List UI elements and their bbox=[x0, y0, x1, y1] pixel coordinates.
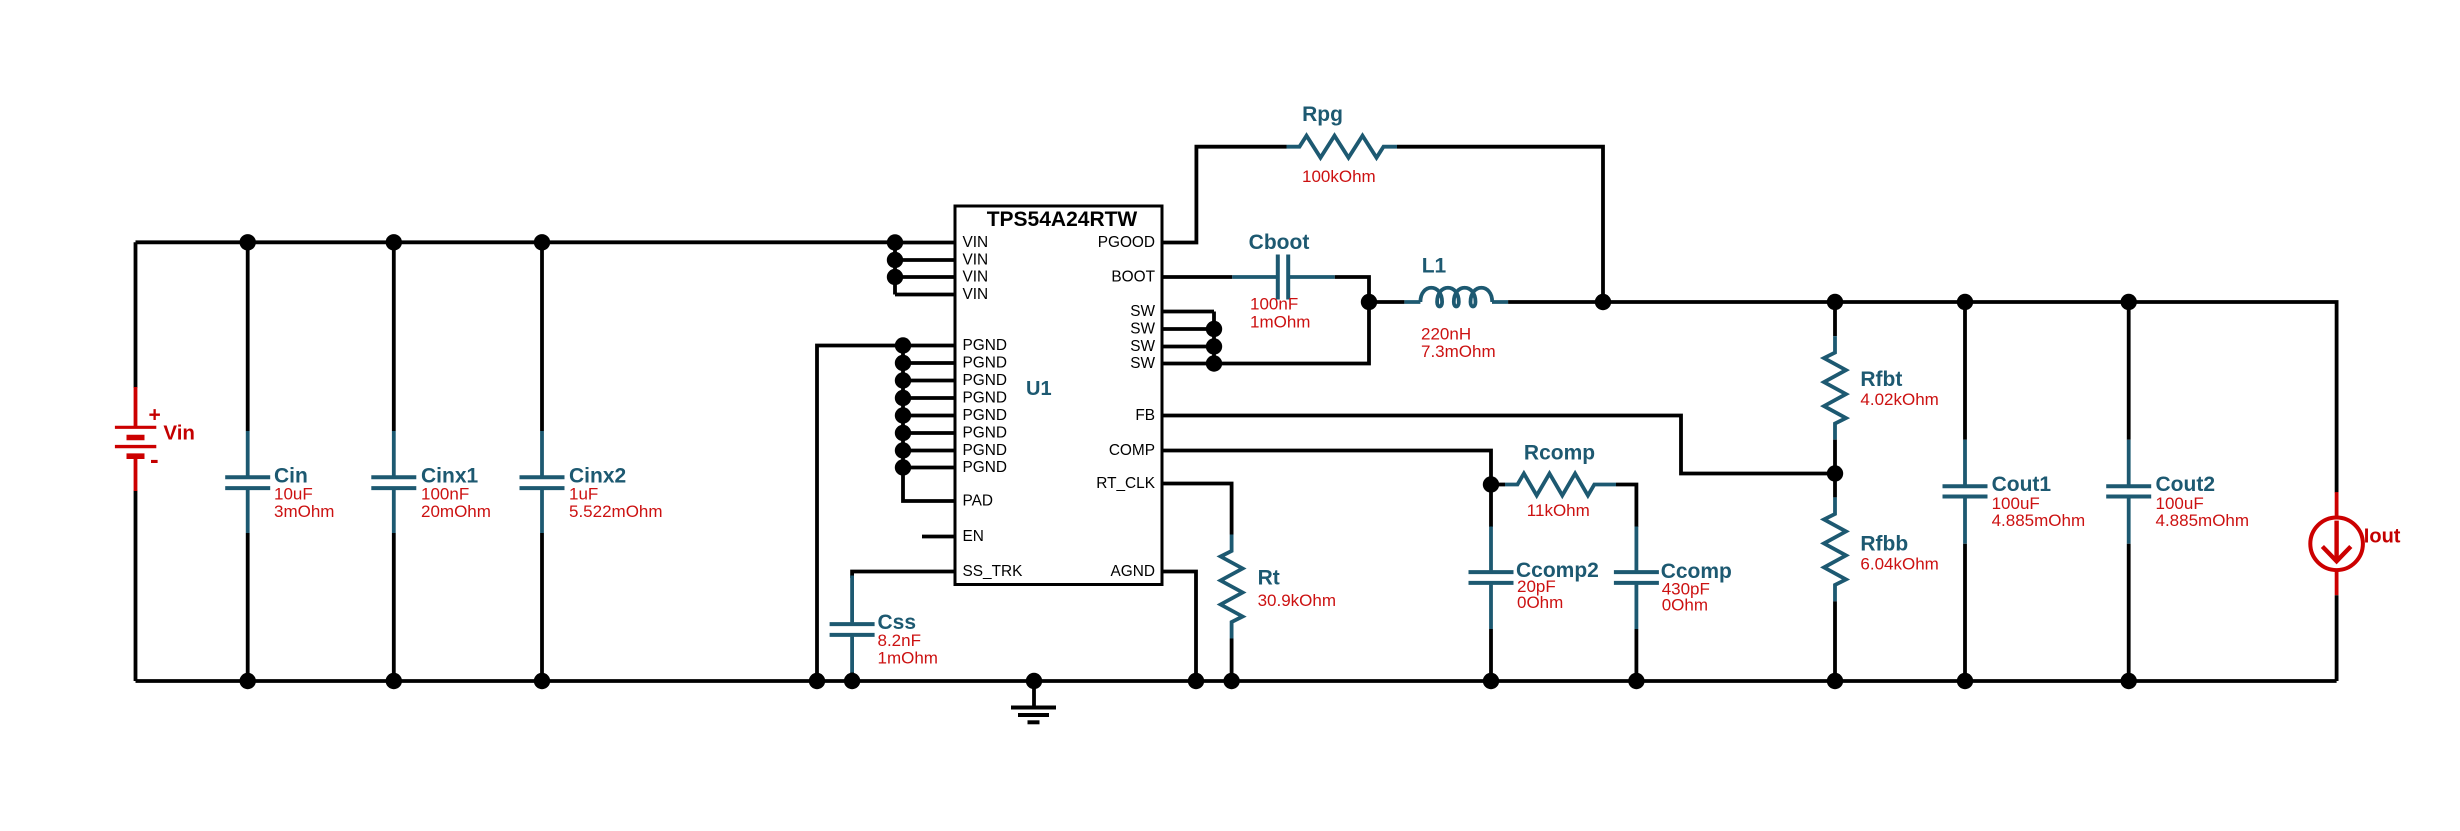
wire Cboot to SW node bbox=[1214, 277, 1369, 364]
svg-text:100kOhm: 100kOhm bbox=[1302, 167, 1376, 186]
svg-text:FB: FB bbox=[1135, 407, 1155, 424]
svg-text:RT_CLK: RT_CLK bbox=[1096, 475, 1155, 492]
svg-text:U1: U1 bbox=[1026, 378, 1052, 400]
svg-text:SS_TRK: SS_TRK bbox=[963, 563, 1024, 580]
svg-text:PGND: PGND bbox=[963, 459, 1007, 476]
junction dots output rail bbox=[1595, 294, 2137, 310]
svg-text:8.2nF: 8.2nF bbox=[878, 631, 921, 650]
svg-text:4.885mOhm: 4.885mOhm bbox=[2156, 511, 2250, 530]
wire AGND to rail bbox=[1162, 572, 1196, 682]
junction dots top rail bbox=[240, 234, 904, 285]
svg-text:PGND: PGND bbox=[963, 442, 1007, 459]
resistor Rcomp bbox=[1491, 442, 1616, 521]
wire left rail lower bbox=[134, 491, 138, 682]
wire bottom ground rail bbox=[136, 679, 2337, 683]
resistor Rfbb bbox=[1824, 474, 1939, 682]
svg-text:-: - bbox=[150, 444, 159, 474]
svg-text:Iout: Iout bbox=[2364, 526, 2401, 548]
junction dot BOOT/SW/L1 node bbox=[1361, 294, 1377, 310]
svg-text:6.04kOhm: 6.04kOhm bbox=[1860, 555, 1938, 574]
svg-text:Rfbb: Rfbb bbox=[1860, 533, 1908, 556]
battery Vin bbox=[115, 387, 195, 491]
junction dots bottom rail bbox=[240, 673, 2137, 689]
svg-text:VIN: VIN bbox=[963, 286, 989, 303]
inductor L1 bbox=[1404, 255, 1508, 362]
svg-text:COMP: COMP bbox=[1109, 442, 1155, 459]
svg-text:SW: SW bbox=[1130, 338, 1155, 355]
svg-text:1mOhm: 1mOhm bbox=[1250, 313, 1310, 332]
svg-text:100nF: 100nF bbox=[1250, 295, 1298, 314]
wire Rcomp to Ccomp bbox=[1616, 485, 1636, 528]
wire FB net bbox=[1162, 416, 1835, 474]
junction dot FB divider node bbox=[1827, 465, 1843, 481]
svg-text:1mOhm: 1mOhm bbox=[878, 649, 938, 668]
svg-text:PAD: PAD bbox=[963, 493, 994, 510]
svg-text:7.3mOhm: 7.3mOhm bbox=[1421, 342, 1496, 361]
wire output rail bbox=[1508, 302, 2337, 493]
svg-text:Rfbt: Rfbt bbox=[1860, 368, 1902, 391]
IC U1 TPS54A24RTW body bbox=[955, 206, 1162, 585]
capacitor Cinx1 bbox=[371, 242, 491, 681]
junction dots SW bus bbox=[1206, 321, 1222, 372]
svg-text:PGND: PGND bbox=[963, 425, 1007, 442]
resistor Rpg bbox=[1287, 103, 1398, 186]
svg-text:1uF: 1uF bbox=[569, 484, 598, 503]
wire RT_CLK to Rt bbox=[1162, 484, 1232, 535]
wire EN stub bbox=[922, 535, 955, 539]
svg-text:VIN: VIN bbox=[963, 269, 989, 286]
capacitor Cboot bbox=[1232, 231, 1335, 332]
capacitor Css bbox=[830, 576, 938, 682]
svg-text:PGND: PGND bbox=[963, 407, 1007, 424]
svg-text:4.885mOhm: 4.885mOhm bbox=[1992, 511, 2086, 530]
svg-text:VIN: VIN bbox=[963, 234, 989, 251]
svg-text:VIN: VIN bbox=[963, 252, 989, 269]
svg-text:Rt: Rt bbox=[1258, 567, 1280, 590]
svg-text:4.02kOhm: 4.02kOhm bbox=[1860, 390, 1938, 409]
svg-text:100nF: 100nF bbox=[421, 484, 469, 503]
wire SW pin bus bbox=[1162, 312, 1214, 364]
capacitor Cout2 bbox=[2106, 302, 2249, 681]
resistor Rfbt bbox=[1824, 302, 1939, 474]
svg-text:3mOhm: 3mOhm bbox=[274, 502, 334, 521]
wire Rpg to output node bbox=[1397, 147, 1603, 302]
wire PGND feed from ground rail bbox=[817, 346, 903, 682]
svg-text:5.522mOhm: 5.522mOhm bbox=[569, 502, 663, 521]
svg-text:PGND: PGND bbox=[963, 372, 1007, 389]
U1 left pin labels bbox=[963, 234, 1024, 580]
resistor Rt bbox=[1221, 535, 1336, 639]
capacitor Cout1 bbox=[1943, 302, 2086, 681]
svg-text:SW: SW bbox=[1130, 355, 1155, 372]
capacitor Cin bbox=[225, 242, 334, 681]
svg-text:11kOhm: 11kOhm bbox=[1527, 501, 1590, 520]
svg-text:30.9kOhm: 30.9kOhm bbox=[1258, 591, 1336, 610]
svg-text:TPS54A24RTW: TPS54A24RTW bbox=[987, 208, 1138, 231]
svg-text:0Ohm: 0Ohm bbox=[1662, 596, 1708, 615]
svg-text:L1: L1 bbox=[1422, 255, 1447, 278]
svg-text:Cout1: Cout1 bbox=[1992, 473, 2052, 496]
capacitor Cinx2 bbox=[520, 242, 663, 681]
wire PGND pin bus and PAD bbox=[903, 346, 955, 502]
svg-text:PGND: PGND bbox=[963, 337, 1007, 354]
svg-text:PGOOD: PGOOD bbox=[1098, 234, 1155, 251]
wire Rt to rail bbox=[1230, 639, 1234, 682]
wire COMP to Rcomp node bbox=[1162, 451, 1491, 485]
wire PGOOD to Rpg bbox=[1162, 147, 1287, 243]
svg-text:SW: SW bbox=[1130, 303, 1155, 320]
capacitor Ccomp bbox=[1614, 527, 1732, 682]
junction dot COMP node bbox=[1483, 476, 1499, 492]
svg-text:PGND: PGND bbox=[963, 390, 1007, 407]
ground bbox=[1011, 681, 1056, 722]
svg-text:Rpg: Rpg bbox=[1302, 103, 1343, 126]
svg-text:PGND: PGND bbox=[963, 355, 1007, 372]
wire VIN pin bus bbox=[895, 243, 955, 295]
svg-text:EN: EN bbox=[963, 528, 984, 545]
svg-text:Cboot: Cboot bbox=[1249, 231, 1310, 254]
svg-text:SW: SW bbox=[1130, 321, 1155, 338]
wire BOOT to Cboot bbox=[1162, 275, 1232, 279]
svg-text:10uF: 10uF bbox=[274, 484, 313, 503]
svg-text:220nH: 220nH bbox=[1421, 325, 1471, 344]
current source Iout bbox=[2310, 492, 2400, 681]
svg-text:Cout2: Cout2 bbox=[2156, 473, 2216, 496]
U1 right pin labels bbox=[1096, 234, 1155, 580]
wire top input rail bbox=[136, 240, 896, 244]
wire SW node to L1 bbox=[1369, 300, 1404, 304]
capacitor Ccomp2 bbox=[1469, 485, 1599, 682]
wire left rail upper bbox=[134, 242, 138, 388]
svg-text:Rcomp: Rcomp bbox=[1524, 442, 1595, 465]
svg-text:+: + bbox=[149, 404, 161, 427]
svg-text:20mOhm: 20mOhm bbox=[421, 502, 491, 521]
svg-text:Vin: Vin bbox=[163, 422, 195, 445]
svg-text:0Ohm: 0Ohm bbox=[1517, 593, 1563, 612]
junction dots PGND bus bbox=[895, 337, 911, 475]
svg-text:BOOT: BOOT bbox=[1111, 269, 1155, 286]
svg-text:AGND: AGND bbox=[1111, 563, 1155, 580]
wire SS_TRK to Css bbox=[852, 572, 955, 579]
